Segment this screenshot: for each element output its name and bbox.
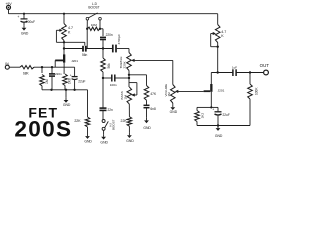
svg-text:1K8: 1K8	[68, 78, 72, 84]
wire feedback node to rail	[86, 29, 88, 49]
capacitor C4 220n	[100, 36, 106, 38]
capacitor C3 56n series in drain rail	[82, 46, 84, 52]
ground below C1	[23, 25, 25, 28]
wire R1 to gate node	[34, 66, 75, 68]
transistor Q2 J201 JFET	[210, 84, 212, 92]
capacitor C6 22uF source bypass	[74, 67, 76, 76]
resistor R10 100K output load	[249, 73, 251, 85]
resistor R3 10M	[87, 27, 100, 30]
svg-text:220n: 220n	[55, 72, 62, 76]
ground below VR3	[172, 105, 174, 108]
wire ground bus stage1	[42, 89, 88, 91]
svg-text:+9V: +9V	[5, 2, 12, 6]
svg-text:100K: 100K	[255, 87, 259, 95]
trimmer P2	[217, 14, 219, 25]
ground stage1 bus	[65, 90, 67, 98]
svg-text:22K: 22K	[121, 119, 128, 123]
wire treble bottom to R8	[129, 74, 147, 76]
node treble bottom	[128, 74, 130, 76]
svg-text:200S: 200S	[14, 116, 72, 141]
ground Q2 source network	[217, 126, 219, 129]
potentiometer VR2 BASS 1M	[127, 87, 132, 104]
node tone junction	[102, 77, 104, 79]
resistor R8 47K	[144, 86, 149, 101]
svg-text:J201: J201	[71, 59, 78, 63]
wire +9V to top rail	[8, 9, 10, 13]
wire output ground return	[197, 125, 250, 127]
svg-text:BOOST: BOOST	[88, 5, 99, 9]
svg-text:GND: GND	[215, 134, 223, 138]
svg-text:BOOST: BOOST	[112, 119, 116, 130]
svg-text:220n: 220n	[106, 33, 113, 37]
svg-text:68K: 68K	[23, 72, 30, 76]
wire R3 to C4	[100, 28, 103, 30]
resistor R9 2K2 Q2 source	[210, 106, 212, 108]
svg-text:4.7: 4.7	[68, 26, 73, 30]
resistor R6 22K	[87, 90, 89, 117]
svg-text:6n8: 6n8	[150, 107, 156, 111]
node IN terminal	[5, 65, 9, 69]
resistor R2 1M	[41, 67, 43, 73]
svg-text:22uF: 22uF	[78, 79, 85, 83]
svg-text:+: +	[212, 108, 214, 112]
svg-text:GND: GND	[21, 31, 29, 35]
svg-text:47K: 47K	[150, 92, 157, 96]
svg-text:GND: GND	[170, 110, 178, 114]
node Q1 drain	[63, 47, 65, 49]
svg-text:4.7: 4.7	[221, 30, 226, 34]
wire Q1 drain rail	[64, 48, 83, 50]
ground below SW2	[103, 134, 105, 137]
svg-text:J201: J201	[218, 88, 225, 92]
svg-text:GND: GND	[143, 126, 151, 130]
trimmer P1	[63, 14, 65, 24]
svg-text:GND: GND	[100, 140, 108, 144]
svg-text:10M: 10M	[91, 23, 97, 27]
ground below R7	[128, 133, 130, 136]
potentiometer VR1 TREBLE 220K	[128, 49, 130, 53]
node OUT terminal	[264, 70, 269, 75]
svg-text:+: +	[70, 73, 72, 77]
wire Q1 gate drop	[54, 60, 56, 67]
svg-text:100n: 100n	[110, 83, 117, 87]
wire treble wiper to volume	[172, 60, 174, 84]
svg-text:K: K	[68, 30, 71, 34]
svg-text:GND: GND	[126, 139, 134, 143]
ground below C9	[146, 118, 148, 121]
capacitor C1 100uF	[23, 14, 25, 19]
capacitor C9 6n8	[144, 104, 150, 106]
svg-text:22uF: 22uF	[223, 113, 230, 117]
capacitor C10 22uF Q2 bypass	[211, 106, 218, 108]
svg-text:1M: 1M	[45, 79, 49, 84]
ground below R6	[87, 134, 89, 137]
switch SW2 H.I BOOST	[102, 120, 105, 123]
capacitor C2 220n	[51, 67, 53, 73]
svg-text:56n: 56n	[82, 53, 88, 57]
svg-text:IN: IN	[5, 62, 9, 66]
capacitor C11 1uF output	[232, 69, 234, 76]
wire top supply rail	[9, 13, 218, 15]
resistor R7 22K tone	[128, 104, 130, 117]
svg-text:K: K	[221, 34, 224, 38]
svg-text:GND: GND	[63, 103, 71, 107]
svg-text:1M: 1M	[167, 92, 171, 97]
svg-text:GND: GND	[84, 140, 92, 144]
svg-text:2K2: 2K2	[200, 113, 204, 119]
svg-text:4700pF: 4700pF	[117, 34, 121, 45]
wire IN to R1	[9, 66, 20, 68]
svg-text:220K: 220K	[123, 60, 127, 68]
wire P1 wiper to feedback cap	[56, 41, 84, 43]
svg-text:1M: 1M	[124, 95, 128, 100]
node +9V power terminal	[7, 5, 11, 9]
capacitor C5 4.7uF electrolytic on rail	[112, 45, 114, 53]
potentiometer VR3 VOLUME 1M	[171, 85, 176, 104]
capacitor C8 22n	[102, 78, 104, 108]
svg-text:100uF: 100uF	[26, 20, 35, 24]
svg-text:OUT: OUT	[260, 63, 270, 68]
svg-text:22K: 22K	[74, 119, 81, 123]
svg-text:56k: 56k	[107, 63, 111, 69]
node drain rail junction	[102, 47, 104, 49]
wire Q2 drain rail	[211, 72, 232, 74]
svg-text:1uF: 1uF	[232, 65, 237, 69]
capacitor C7 100n	[103, 77, 111, 79]
svg-text:22n: 22n	[108, 108, 114, 112]
transistor Q1 J201 JFET	[63, 54, 65, 62]
svg-text:+: +	[17, 15, 19, 19]
resistor R1 68K	[20, 66, 34, 69]
resistor R5 2K2 source	[63, 67, 65, 74]
resistor R4 56k	[102, 49, 104, 59]
